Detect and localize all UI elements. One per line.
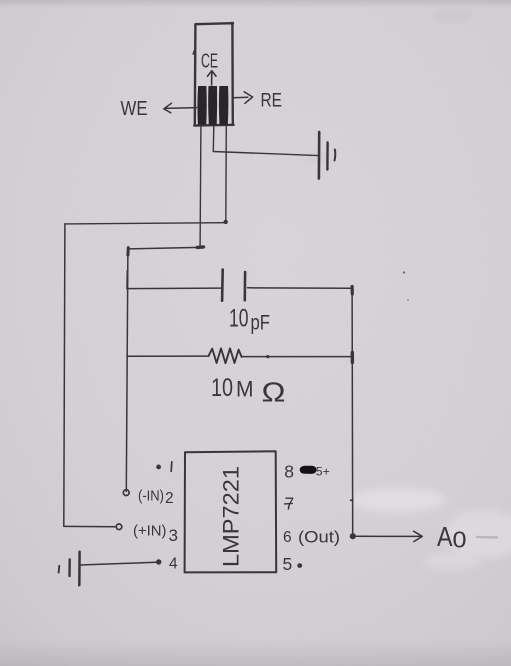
junction blob WE wire corner bbox=[197, 245, 203, 249]
op-amp U1 body bbox=[185, 451, 277, 572]
svg-text:CE: CE bbox=[201, 50, 218, 73]
electrode bar 1 (WE) bbox=[198, 87, 206, 125]
svg-text:2: 2 bbox=[165, 490, 174, 507]
WE arrow (left) bbox=[164, 103, 197, 113]
pin 3 node dot bbox=[116, 524, 122, 530]
wire far-left rail down bbox=[64, 224, 65, 526]
wire RE electrode down bbox=[225, 126, 228, 222]
resistor R1 left wire bbox=[127, 355, 209, 357]
resistor wire dot bbox=[266, 355, 269, 358]
junction dot RE corner bbox=[224, 220, 228, 224]
capacitor C1 left wire bbox=[127, 287, 221, 290]
svg-text:LMP7221: LMP7221 bbox=[219, 466, 244, 567]
svg-text:WE: WE bbox=[121, 98, 148, 120]
wire to pin 3 bbox=[64, 525, 117, 527]
svg-text:pF: pF bbox=[251, 311, 271, 335]
battery long bar bbox=[78, 552, 81, 586]
pin 8 supply blob (marker) bbox=[300, 466, 316, 473]
ground G1 bar long bbox=[318, 132, 321, 179]
svg-text:4: 4 bbox=[169, 556, 178, 573]
right rail tick bbox=[351, 499, 353, 501]
sensor top-right corner dot bbox=[231, 22, 235, 26]
wire CE to ground bbox=[213, 152, 318, 156]
pin 2 node dot bbox=[123, 490, 129, 496]
whiteout patch below A0 bbox=[424, 552, 480, 570]
pin 7 numeral crossbar bbox=[285, 502, 293, 505]
ground G1 bar short bbox=[326, 143, 329, 170]
svg-text:(Out): (Out) bbox=[298, 529, 340, 547]
junction dot output node bbox=[350, 533, 356, 539]
electrode bar 3 (RE) bbox=[219, 87, 227, 125]
whiteout patch near pin7 bbox=[350, 488, 446, 512]
faint smudge near ground bbox=[303, 153, 331, 161]
faint scuff top right bbox=[430, 11, 474, 21]
capacitor C1 left plate bbox=[221, 270, 224, 301]
CE arrow (up) bbox=[208, 71, 217, 85]
svg-text:Ω: Ω bbox=[262, 377, 286, 408]
svg-text:8: 8 bbox=[284, 461, 294, 481]
battery short bar bbox=[68, 560, 71, 577]
left rail corner blob bbox=[126, 248, 129, 255]
pin 4 node dot bbox=[156, 559, 161, 564]
resistor R1 zigzag bbox=[209, 348, 242, 363]
svg-text:10: 10 bbox=[211, 374, 233, 402]
output wire to A0 arrow bbox=[356, 531, 422, 541]
RE arrow (right) bbox=[233, 92, 253, 104]
capacitor C1 left stub tick bbox=[126, 271, 128, 289]
svg-text:6: 6 bbox=[283, 529, 292, 546]
svg-text:3: 3 bbox=[169, 526, 178, 545]
svg-text:RE: RE bbox=[261, 91, 283, 112]
wire corner to left rail bbox=[128, 247, 200, 249]
pin 5 dot bbox=[297, 563, 302, 568]
svg-text:5: 5 bbox=[283, 554, 293, 574]
wire RE to far left bbox=[65, 223, 226, 224]
wire left rail down to pin 2 bbox=[126, 249, 128, 492]
paper speck 2 bbox=[407, 299, 409, 301]
faint erased dash right of A0 bbox=[477, 536, 497, 539]
svg-text:5+: 5+ bbox=[316, 464, 330, 478]
paper speck 1 bbox=[403, 271, 405, 273]
wire right rail down to output bbox=[351, 288, 354, 535]
battery tick bbox=[58, 566, 61, 573]
svg-text:(-IN): (-IN) bbox=[138, 489, 164, 505]
pin 1 numeral stroke bbox=[170, 462, 173, 472]
junction blob right rail at cap bbox=[351, 287, 354, 295]
wire WE electrode down bbox=[199, 126, 202, 247]
pin 1 dot bbox=[156, 465, 161, 470]
sensor left-edge arrow mark bbox=[193, 48, 195, 56]
ground G1 tick bbox=[334, 150, 337, 161]
svg-text:7: 7 bbox=[285, 494, 295, 514]
svg-text:A: A bbox=[437, 521, 453, 552]
capacitor C1 right wire bbox=[248, 287, 353, 290]
capacitor C1 right plate bbox=[244, 272, 247, 300]
svg-text:0: 0 bbox=[453, 527, 467, 553]
whiteout patch right of A0 bbox=[444, 510, 511, 558]
wire pin 4 to battery bbox=[80, 562, 156, 565]
electrode bar 2 (CE) bbox=[209, 87, 217, 125]
svg-text:10: 10 bbox=[229, 305, 249, 333]
wire CE electrode down bbox=[212, 126, 215, 152]
svg-text:(+IN): (+IN) bbox=[133, 524, 167, 540]
resistor R1 right wire bbox=[242, 356, 353, 358]
sensor body rectangle bbox=[194, 23, 233, 125]
junction blob right rail at resistor bbox=[351, 353, 355, 363]
svg-text:M: M bbox=[236, 377, 254, 402]
